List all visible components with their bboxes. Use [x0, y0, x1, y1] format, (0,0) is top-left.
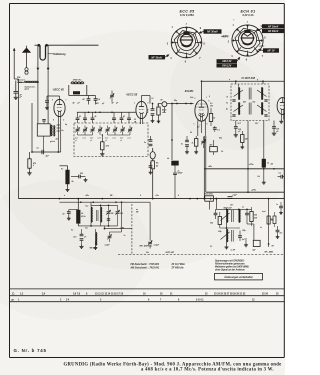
svg-text:10n: 10n [280, 233, 283, 235]
svg-text:NF 30mV: NF 30mV [207, 31, 218, 34]
capacitor C13 stack [144, 136, 152, 148]
wire x150 drop [149, 104, 151, 137]
svg-text:35: 35 [276, 293, 279, 295]
label Symmetrierglied [25, 85, 36, 90]
svg-text:Bildleitung: Bildleitung [53, 53, 66, 56]
capacitor C11 [71, 171, 86, 178]
strip row C label [12, 291, 15, 295]
ground for C1 [14, 95, 18, 99]
svg-text:Spannungen mit GRUNDIG-: Spannungen mit GRUNDIG- [215, 259, 245, 262]
voltage label boxes at U2 bottom left [217, 57, 241, 68]
wire long left bus [18, 79, 20, 199]
label 40pF row [72, 102, 120, 105]
svg-text:8: 8 [140, 195, 141, 197]
capacitor C21 with ground [272, 127, 280, 136]
trimmer C7a [110, 91, 114, 103]
svg-text:3-12: 3-12 [75, 138, 78, 140]
T1 trimmer arrows [225, 90, 267, 112]
AM right vert [110, 201, 123, 232]
box Aenderungen vorbehalten [215, 274, 263, 280]
coupling loop L4 [37, 120, 52, 137]
FM tuner dashed box [74, 123, 148, 157]
coil L4b [50, 126, 59, 143]
wire loop to line [37, 136, 43, 152]
voltage label boxes at U2 top right [256, 24, 284, 33]
svg-text:5p: 5p [65, 124, 67, 126]
svg-text:23 24 25 26 27 28 29 30 31 32: 23 24 25 26 27 28 29 30 31 32 [214, 292, 246, 295]
label 300pF [96, 103, 106, 105]
bus wire y169 [204, 168, 284, 170]
AM osc trimmer C31 [106, 205, 110, 226]
svg-text:5µF: 5µF [242, 239, 246, 241]
svg-text:NF 1V: NF 1V [267, 50, 274, 53]
svg-text:20: 20 [160, 293, 163, 295]
AM osc coil L7 [85, 202, 92, 226]
svg-text:1: 1 [194, 124, 195, 126]
svg-text:1: 1 [172, 27, 174, 29]
T1 up leads [236, 81, 263, 84]
tuner inner wire [78, 134, 131, 135]
svg-text:pF: pF [83, 237, 86, 239]
svg-text:4k7: 4k7 [209, 143, 213, 146]
svg-text:0,5: 0,5 [197, 127, 199, 129]
electrolytic C27 [252, 240, 260, 251]
svg-text:8k2: 8k2 [254, 215, 257, 217]
svg-text:5n: 5n [181, 144, 183, 146]
tube V1 half ECC85 [52, 99, 67, 121]
tube socket U1 ECC85 label [180, 10, 196, 18]
svg-text:5n: 5n [144, 142, 146, 144]
tuner value labels [74, 138, 130, 142]
svg-text:pF: pF [133, 122, 136, 124]
svg-text:P:: P: [12, 298, 15, 302]
coupling cluster resistor [146, 104, 161, 123]
coupling coil turns [25, 68, 28, 74]
label MF1 [140, 245, 154, 248]
svg-text:M8: M8 [110, 195, 112, 197]
AM osc wire rows [78, 204, 117, 226]
wire x32 drop [31, 103, 33, 152]
label 5657-147 upper [224, 206, 233, 209]
capacitor row above tuner [76, 112, 131, 123]
label 470k [32, 162, 36, 167]
ground for C11 [84, 178, 88, 182]
wire NF out [268, 240, 275, 248]
svg-text:3-12: 3-12 [120, 138, 123, 140]
svg-text:8k2: 8k2 [210, 223, 213, 225]
ground for R6 [66, 188, 70, 192]
tuner trimmer bank [75, 126, 132, 136]
wire grid to V3 [158, 103, 194, 113]
svg-text:pF: pF [119, 140, 122, 142]
svg-text:ZF 468 kHz: ZF 468 kHz [171, 267, 185, 270]
label FI 1007-308 [242, 77, 256, 80]
ground in tuner [100, 152, 104, 156]
AM osc trimmer C32 [115, 205, 123, 226]
svg-text:125p: 125p [218, 231, 222, 233]
svg-text:f: f [186, 23, 187, 26]
AM osc resistor R15 [77, 210, 87, 226]
electrolytic C25 [226, 194, 238, 198]
svg-text:7: 7 [66, 100, 67, 102]
scan haze [0, 30, 310, 320]
svg-text:Ab-: Ab- [55, 139, 59, 141]
AM IF dashed box edge [131, 204, 133, 255]
label MF2 right [265, 250, 275, 253]
T2 core [232, 210, 234, 222]
svg-text:g: g [257, 79, 258, 81]
svg-text:33 34: 33 34 [262, 292, 268, 295]
svg-text:ECC 85: ECC 85 [180, 10, 196, 14]
ratio transformer T2 upper coil [227, 210, 228, 223]
svg-text:Fa: Fa [226, 103, 228, 105]
dark component trafo [167, 158, 179, 172]
svg-text:a: a [64, 195, 65, 197]
svg-text:Änderungen vorbehalten: Änderungen vorbehalten [223, 276, 253, 279]
svg-text:Röhrenvoltmeter gemessen: Röhrenvoltmeter gemessen [215, 263, 245, 266]
ceramic cap C12 [158, 100, 172, 107]
svg-text:3-12pF: 3-12pF [154, 244, 160, 246]
resistor R7 [151, 161, 154, 199]
pin voltage label +4.4V U1 [222, 36, 229, 39]
bus stub verts [60, 117, 103, 199]
resistor R12 with ground [240, 131, 248, 149]
trimmer C16 [201, 137, 205, 149]
capacitor C6 [94, 96, 101, 105]
coupling cluster caps [151, 103, 155, 123]
svg-text:0,1: 0,1 [278, 172, 280, 174]
svg-text:Ratio-Elko: Ratio-Elko [205, 193, 213, 196]
svg-text:50: 50 [63, 214, 65, 216]
svg-text:f: f [247, 21, 248, 24]
svg-text:19: 19 [143, 293, 146, 295]
components right of V3 top [209, 108, 219, 132]
svg-text:depl: depl [262, 211, 266, 213]
svg-text:3-12: 3-12 [90, 138, 93, 140]
svg-text:pF: pF [89, 140, 92, 142]
svg-text:5,6 7,8: 5,6 7,8 [73, 293, 81, 295]
wire V1 plate [45, 96, 59, 110]
label half ECC85 V2 [126, 93, 138, 97]
svg-text:+ 5µF: + 5µF [232, 194, 238, 196]
wire V2 plate right [142, 96, 151, 104]
AM osc out wire [104, 226, 132, 230]
down feeder 1 [37, 45, 39, 124]
svg-text:Ra: Ra [156, 163, 158, 165]
T1 core lower [242, 101, 256, 115]
svg-text:4: 4 [177, 194, 179, 197]
tube socket U1 ECC85 bottom view [167, 23, 206, 63]
capacitor C5 [82, 96, 91, 105]
svg-text:10,7: 10,7 [255, 123, 258, 125]
stub below R13 [258, 169, 266, 184]
label half ECC85 V1 [53, 87, 65, 91]
svg-text:kHz: kHz [253, 102, 256, 104]
AM cap left [63, 210, 79, 221]
tube V3 ECH81 [195, 100, 208, 121]
strip row C numbers [20, 292, 279, 295]
svg-text:1n: 1n [242, 207, 244, 209]
svg-text:pF: pF [104, 140, 107, 142]
coil L3 leads [69, 84, 96, 96]
svg-text:+4,4 V: +4,4 V [221, 35, 228, 38]
wire V2 leads [140, 118, 142, 124]
IF transformer T1 dashed box [231, 84, 269, 121]
bottom dashed line [118, 254, 284, 256]
capacitor C17 [149, 162, 153, 174]
svg-text:HF 30mV: HF 30mV [268, 30, 279, 33]
AM lower trimmer C34 [105, 232, 112, 247]
svg-text:6,3V 0,435A: 6,3V 0,435A [180, 14, 194, 17]
tube V4 EF89 partial [277, 98, 288, 115]
T1 primary coil lower [239, 103, 240, 115]
svg-text:6k8: 6k8 [254, 217, 257, 219]
label in tuner [105, 145, 110, 148]
svg-text:0,1: 0,1 [71, 230, 73, 232]
svg-text:pF: pF [146, 112, 149, 114]
voltage label box NF 30mV at U1 right [199, 29, 222, 33]
voltage label box 30mV at U1 lower left [149, 55, 170, 60]
resistor R20 [267, 216, 275, 224]
svg-text:3-12: 3-12 [82, 138, 85, 140]
svg-text:NF: NF [272, 246, 275, 248]
bus wire y192 [206, 191, 284, 193]
svg-text:3: 3 [207, 124, 208, 126]
grounds mid [194, 150, 198, 154]
svg-text:9: 9 [200, 28, 202, 30]
svg-text:3-12: 3-12 [112, 138, 115, 140]
svg-text:0,1: 0,1 [210, 246, 212, 248]
svg-text:6,3V 0,3A: 6,3V 0,3A [242, 14, 253, 17]
voltage label box at U2 right [258, 48, 279, 52]
svg-text:½ECC 85: ½ECC 85 [126, 93, 138, 97]
alignment strip lines [10, 289, 285, 302]
main bus y198.6 [19, 198, 285, 200]
svg-text:+85: +85 [270, 164, 273, 166]
svg-text:40: 40 [82, 98, 85, 101]
svg-text:21: 21 [170, 293, 173, 295]
svg-text:FM 0,2V: FM 0,2V [222, 64, 231, 67]
svg-text:3-12pF: 3-12pF [105, 245, 110, 247]
wire y152 [31, 151, 61, 153]
svg-text:An: An [225, 109, 228, 111]
svg-text:+2,4v: +2,4v [259, 44, 265, 47]
svg-text:1n: 1n [276, 204, 278, 206]
resistor R9 [192, 136, 198, 150]
svg-text:ohne Signal an der Antenne: ohne Signal an der Antenne [215, 269, 245, 272]
resistor R6 [66, 166, 69, 188]
svg-text:22: 22 [205, 293, 208, 295]
junction dots near V3 [185, 96, 210, 127]
capacitor C1 [14, 79, 23, 99]
svg-text:NF 30mV: NF 30mV [151, 56, 162, 59]
svg-text:MF₁ 468 kHz: MF₁ 468 kHz [140, 245, 154, 248]
capacitor C14b [173, 170, 183, 198]
detector cluster left [210, 210, 221, 229]
T1 secondary coil lower [262, 103, 263, 115]
svg-text:±0,5: ±0,5 [73, 237, 76, 239]
AM lower grounds [79, 245, 97, 250]
T1 internal caps [232, 100, 267, 116]
svg-text:ZF 10,7 MHz: ZF 10,7 MHz [171, 264, 186, 266]
svg-text:a. M8: a. M8 [120, 227, 124, 229]
capacitor C15 stack [181, 136, 189, 154]
ratio elko box [205, 193, 214, 202]
strip row P label [12, 298, 15, 302]
svg-text:an NF: an NF [231, 250, 237, 252]
ground for R5 [27, 171, 31, 175]
svg-text:80p: 80p [174, 100, 177, 102]
svg-text:HF 10mV: HF 10mV [268, 25, 279, 28]
caption line 2 [141, 367, 274, 372]
wire grid row [77, 111, 136, 113]
label FM antenna [16, 77, 26, 84]
svg-text:gleich: gleich [50, 141, 55, 143]
AM bus drop [77, 199, 79, 211]
svg-text:G. Nr. b 745: G. Nr. b 745 [14, 348, 47, 353]
svg-text:500: 500 [80, 173, 83, 175]
svg-text:50: 50 [147, 110, 149, 112]
strip row P numbers [18, 299, 255, 302]
svg-text:FM-Zwischenfr. : 7415-004: FM-Zwischenfr. : 7415-004 [131, 263, 160, 266]
ground right mid [244, 238, 248, 247]
label ECH81 V3 [185, 89, 194, 93]
feedline U loop [40, 45, 46, 60]
svg-text:5657-147: 5657-147 [224, 206, 233, 209]
V4 leads [279, 114, 283, 123]
T1 primary coil upper [239, 84, 240, 100]
AM osc cap C31b [107, 213, 114, 220]
svg-text:130: 130 [111, 213, 114, 215]
UKW band coil L3 [71, 80, 84, 84]
svg-text:C:: C: [12, 291, 15, 295]
svg-text:8: 8 [209, 96, 210, 98]
wire x204 double [204, 136, 206, 199]
svg-text:pF: pF [74, 140, 77, 142]
symmetry coil L2 [19, 81, 39, 83]
svg-text:1n: 1n [260, 227, 262, 229]
T1 down leads [236, 121, 274, 193]
svg-text:Meßwerte gelten bei UKW (MW): Meßwerte gelten bei UKW (MW) [215, 266, 249, 269]
ground T2 [225, 245, 229, 249]
wire V1 cathode leads [57, 116, 64, 152]
svg-text:AM-Zwischenfr. : 7415-041: AM-Zwischenfr. : 7415-041 [130, 267, 160, 270]
T1 secondary coil upper [262, 84, 263, 100]
svg-text:7: 7 [200, 125, 201, 127]
svg-text:10 11 12 13 14 15 16 17 18: 10 11 12 13 14 15 16 17 18 [95, 292, 124, 295]
svg-text:Ue: Ue [167, 158, 169, 160]
caption line 1 [64, 363, 282, 368]
AM osc coil L7b [97, 205, 102, 226]
capacitor C10 [37, 148, 50, 158]
resistor R5 [28, 152, 32, 171]
ratio transformer T2 lower coil [227, 229, 234, 242]
svg-text:AM 0,4V: AM 0,4V [221, 60, 232, 63]
wire V3 leads down [198, 120, 206, 137]
svg-text:a: a [229, 79, 230, 81]
T2 upper right coil [239, 210, 240, 223]
small box below V3 [209, 140, 218, 155]
svg-text:125p: 125p [242, 230, 246, 232]
second bus y202.2 [60, 201, 151, 203]
T2 trimmer arrows [221, 213, 230, 240]
svg-text:10,7: 10,7 [230, 205, 233, 207]
label Bildleitung [48, 53, 67, 56]
antenna bus wire [35, 44, 99, 47]
svg-text:½ECC 85: ½ECC 85 [53, 87, 65, 91]
tube V2 half ECC85 [134, 101, 149, 123]
detector cluster right [245, 207, 257, 226]
svg-text:9: 9 [52, 100, 53, 102]
svg-text:a 468 kc/s e a 10,7 Mc/s. Pote: a 468 kc/s e a 10,7 Mc/s. Potenza d'usci… [141, 367, 274, 372]
svg-text:f: f [234, 20, 235, 22]
svg-text:50p: 50p [219, 138, 222, 140]
capacitor C28 [269, 226, 283, 239]
micro labels pass [63, 79, 273, 251]
svg-text:0,1: 0,1 [217, 130, 219, 132]
corner drop x150 [146, 202, 160, 254]
T1 core upper [249, 88, 251, 100]
down feeder 2 [47, 45, 49, 124]
svg-text:Che: Che [146, 252, 149, 254]
wire V3 plate up [201, 81, 203, 100]
svg-text:1: 1 [134, 103, 135, 105]
wires ratio section [209, 198, 269, 245]
svg-text:2: 2 [195, 98, 196, 100]
svg-text:3-12: 3-12 [97, 138, 100, 140]
label FI 557 [166, 251, 175, 254]
svg-text:Ka: Ka [62, 130, 64, 132]
svg-text:UKW Vkr.: UKW Vkr. [73, 80, 82, 82]
wire R6 top [60, 162, 68, 166]
svg-text:80: 80 [161, 100, 163, 102]
svg-text:1: 1 [233, 25, 235, 27]
labels mid cluster [61, 169, 83, 183]
drawing number [14, 348, 47, 353]
svg-text:2: 2 [148, 103, 149, 105]
svg-text:Osz: Osz [85, 205, 88, 207]
wire top bus to right edge [201, 80, 285, 82]
fuse F1 [150, 148, 155, 161]
svg-text:MF₂-468k: MF₂-468k [265, 250, 275, 253]
svg-text:8µF: 8µF [252, 250, 256, 252]
svg-text:30: 30 [134, 119, 136, 121]
svg-text:9 10 11: 9 10 11 [196, 300, 204, 302]
svg-text:10,7: 10,7 [238, 123, 241, 125]
wire x172 vert [171, 104, 173, 161]
svg-text:ECH 81: ECH 81 [241, 10, 256, 14]
svg-text:5657-147: 5657-147 [166, 251, 175, 254]
measurement note text [215, 259, 249, 271]
svg-text:40: 40 [72, 102, 75, 105]
capacitor C22 right edge [278, 172, 285, 178]
svg-text:M8: M8 [136, 212, 138, 214]
right lower extra [270, 202, 283, 227]
AM lower coil L8 [90, 229, 98, 249]
svg-text:8: 8 [53, 120, 54, 122]
resistor R4 in tuner [101, 135, 104, 152]
tube socket U2 ECH81 bottom view [228, 21, 266, 61]
dipole antenna arrow [13, 48, 15, 79]
label Ra 4k [155, 163, 159, 168]
svg-text:Osz: Osz [85, 228, 88, 230]
antenna symbol [22, 46, 30, 68]
svg-text:FI 1007-308: FI 1007-308 [242, 77, 256, 80]
svg-text:3-12: 3-12 [127, 138, 130, 140]
capacitor C20 with ground [234, 127, 242, 137]
capacitor C26 [238, 231, 246, 242]
svg-text:3-12: 3-12 [105, 138, 108, 140]
